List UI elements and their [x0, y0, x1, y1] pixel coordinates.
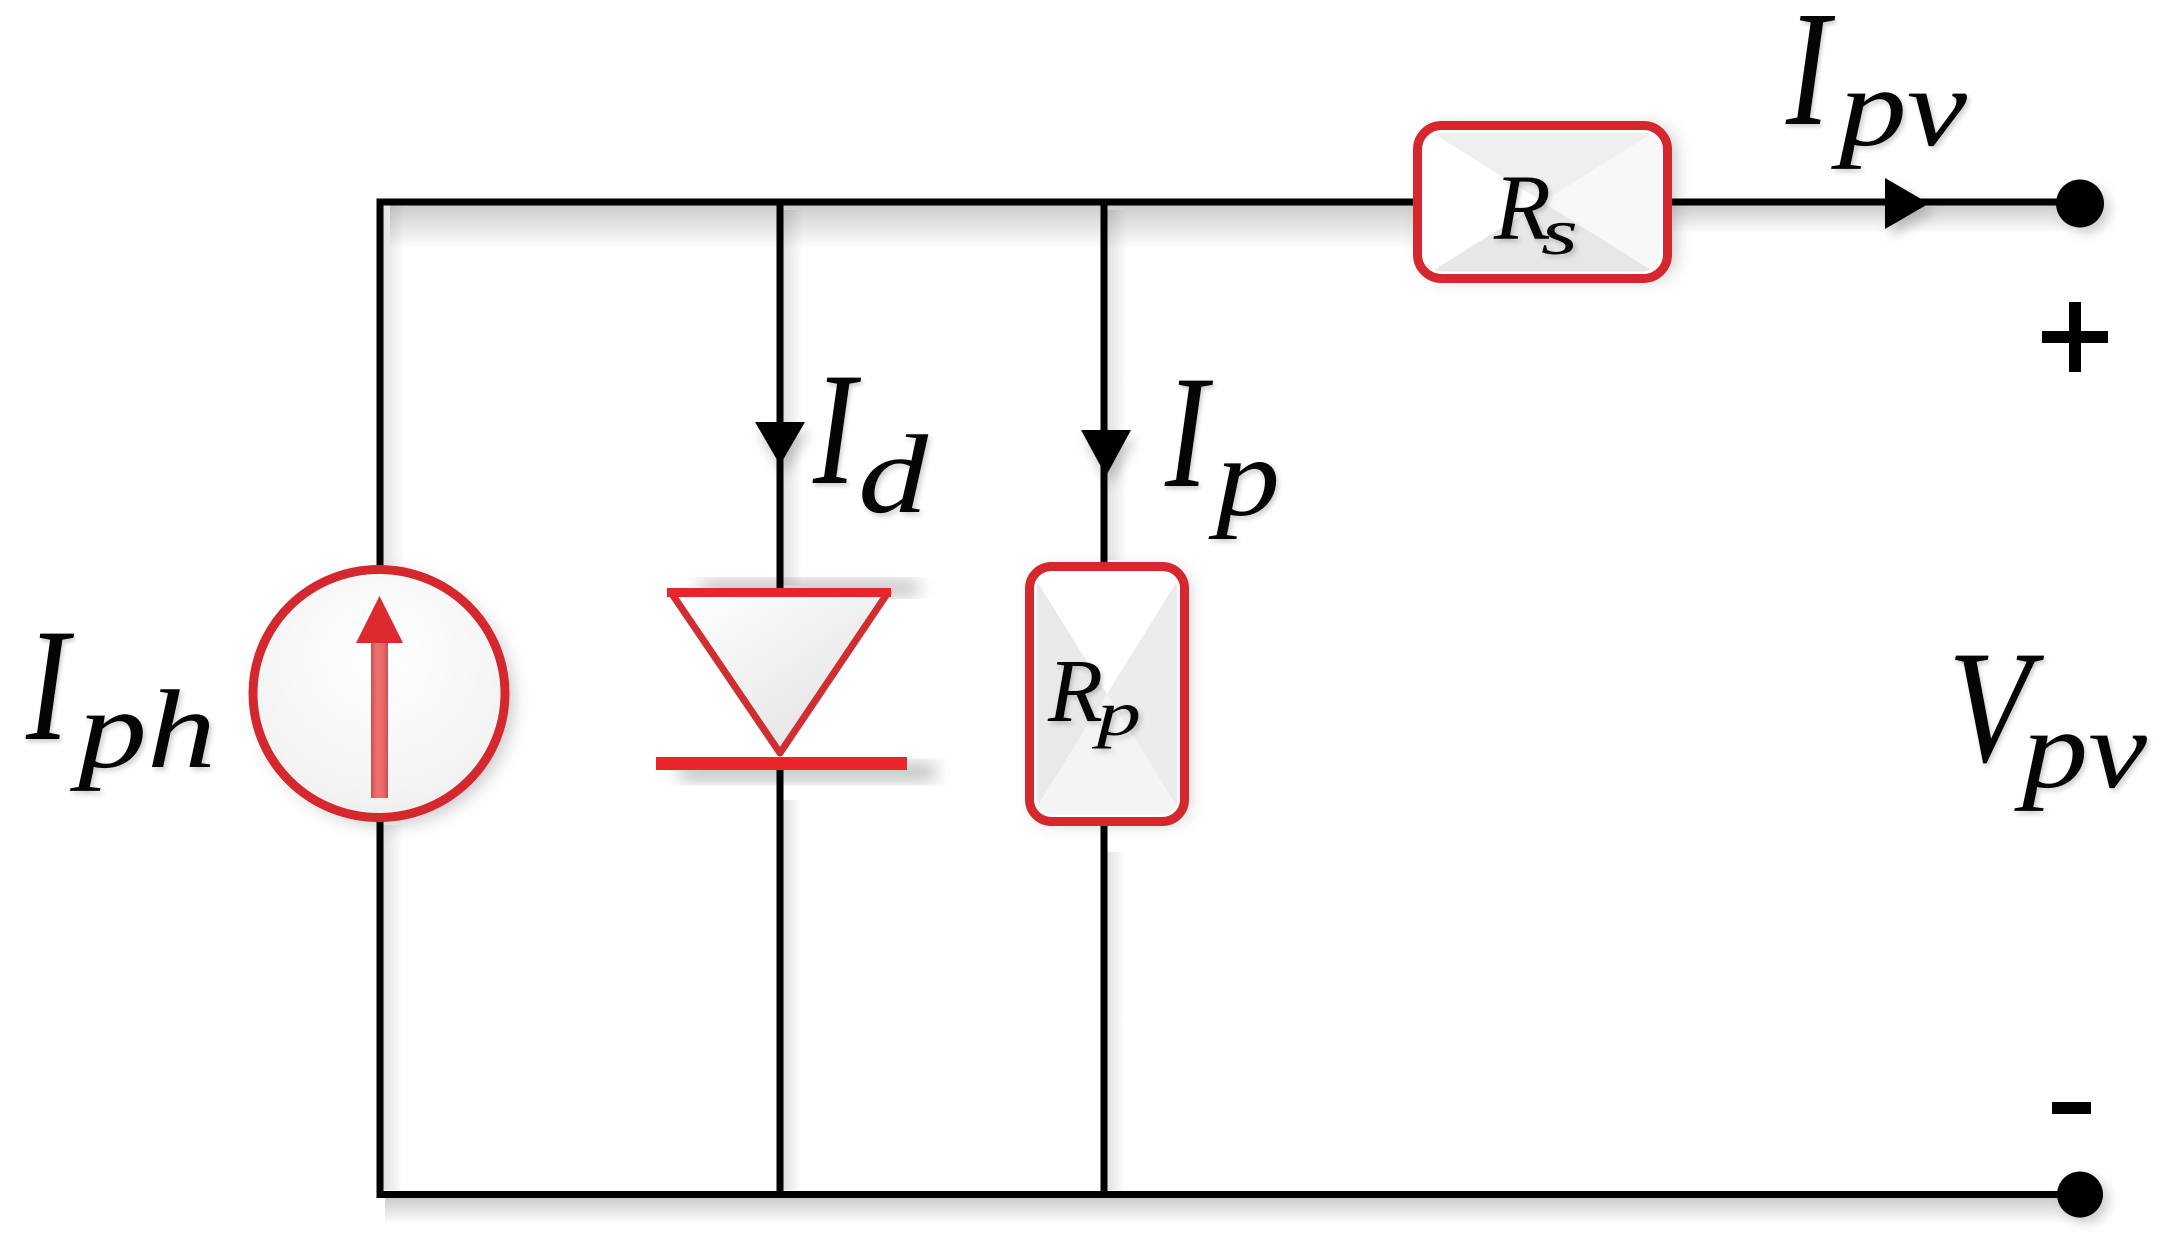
soft shadow of diode anode bar (up-right) — [700, 583, 918, 593]
plus sign at positive terminal — [2042, 302, 2108, 372]
shadow right of shunt branch lower wire — [1107, 852, 1125, 1190]
current arrow Id on diode branch — [755, 422, 805, 465]
current source Iph (circle) — [253, 570, 505, 818]
svg-text:I: I — [1164, 343, 1213, 521]
resistor Rp (shunt) — [1025, 562, 1189, 826]
soft shadow of Rs box — [1424, 128, 1674, 278]
wire: diode branch lower — [777, 766, 784, 1195]
soft shadow of top node dot — [2063, 186, 2109, 232]
soft shadow of Id arrowhead — [759, 432, 809, 475]
wire: left vertical lower segment — [377, 819, 384, 1198]
svg-text:p: p — [1092, 678, 1142, 749]
minus sign at negative terminal — [2052, 1102, 2091, 1114]
shadow under top wire — [390, 205, 1414, 249]
current source arrow (red, up) — [356, 596, 403, 798]
svg-text:I: I — [1785, 0, 1835, 160]
diode cathode bar — [656, 757, 907, 770]
soft shadow of current source circle — [260, 576, 512, 824]
soft shadow of Ipv arrowhead — [1891, 186, 1935, 237]
wire: bottom horizontal — [377, 1191, 2082, 1198]
wire: top horizontal from left corner to Rs — [377, 199, 1415, 206]
node dot: positive output terminal — [2056, 180, 2104, 228]
svg-text:I: I — [812, 340, 861, 518]
current arrow Ip on shunt branch — [1081, 430, 1131, 476]
current arrow Ipv on output wire — [1885, 178, 1929, 229]
soft shadow of Ip arrowhead — [1085, 440, 1135, 486]
svg-text:d: d — [858, 413, 929, 537]
svg-text:p: p — [1208, 416, 1280, 540]
shadow right of diode branch lower wire — [783, 800, 801, 1190]
soft shadow of diode cathode bar (down-right) — [680, 766, 935, 778]
svg-text:ph: ph — [69, 668, 216, 792]
shadow right of shunt branch upper wire — [1107, 210, 1127, 560]
soft shadow of Rp box — [1035, 570, 1187, 822]
wire: left vertical upper segment — [377, 199, 384, 568]
wire: shunt branch lower — [1101, 824, 1108, 1195]
wire: diode branch upper — [777, 199, 784, 591]
shadow right of left vertical wire — [383, 205, 405, 565]
shadow under top-right wire — [1672, 205, 2072, 233]
node dot: negative output terminal — [2057, 1172, 2103, 1218]
resistor Rs (series) — [1413, 121, 1672, 283]
svg-text:R: R — [1047, 642, 1103, 741]
soft shadow of bottom node dot — [2064, 1178, 2108, 1222]
shadow under bottom wire — [385, 1198, 2085, 1224]
diode D (triangle) — [667, 588, 891, 753]
shadow right of left vertical lower wire — [383, 825, 403, 1190]
svg-text:s: s — [1541, 196, 1578, 269]
svg-text:I: I — [25, 596, 74, 774]
wire: shunt branch upper — [1101, 199, 1108, 564]
svg-text:pv: pv — [2014, 688, 2148, 812]
wire: top horizontal from Rs to output node — [1672, 199, 2080, 206]
shadow right of diode branch upper wire — [783, 210, 803, 585]
svg-text:pv: pv — [1831, 46, 1968, 170]
